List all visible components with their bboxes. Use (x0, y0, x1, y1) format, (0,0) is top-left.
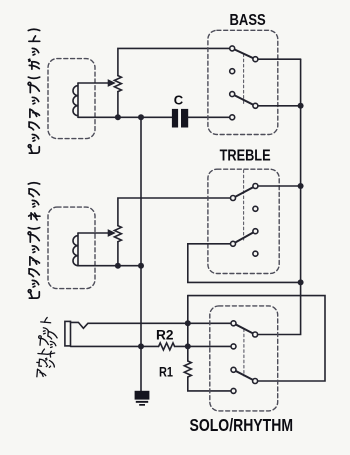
resistor R2 (horizontal zigzag) (159, 343, 175, 350)
switch S1 lever pole2 (232, 94, 255, 106)
node ground bus top junction (138, 114, 144, 120)
wire R1 bottom to S3 terminal 4 (188, 377, 232, 391)
switch S3 gang link (dashed) (243, 329, 245, 376)
wire S1 throw1 to right bus (255, 58, 300, 60)
label output jack line 2 (rotated Japanese text) (45, 332, 58, 368)
switch S1 throw contact B (253, 103, 258, 108)
label output jack line 1 (rotated Japanese text) (35, 317, 51, 378)
switch S2 lever pole1 (233, 186, 255, 198)
output jack body (sleeve) (65, 321, 71, 346)
label pickup P1 (vertical Japanese text) (28, 29, 40, 153)
switch S3 contact pin 3 (231, 367, 236, 372)
switch S3 SOLO/RHYTHM dashed enclosure (210, 306, 278, 411)
switch S2 throw contact 1a (253, 184, 258, 189)
switch S2 throw contact 1b (253, 206, 258, 211)
svg-text:C: C (174, 93, 184, 108)
svg-text:R2: R2 (156, 328, 174, 343)
wire hot loop to S3 throw2 (upper path) (188, 296, 325, 381)
wire ground rail top: coil bottom to capacitor (78, 116, 172, 118)
wire right bus (BASS/TREBLE/SOLO common) (256, 59, 301, 334)
wire jack tip contact to S3 pole1 (with spring notch) (71, 322, 232, 328)
node R1/R2/S3 junction (185, 343, 191, 349)
switch S2 pole contact 2 (231, 241, 236, 246)
switch S1 contact pin 1 (230, 46, 235, 51)
pickup P2 (neck) dashed enclosure (48, 207, 95, 289)
wire coil L1 top to wiper (78, 82, 109, 84)
switch S3 contact pin 1 (231, 321, 236, 326)
switch S2 throw contact 2a (253, 229, 258, 234)
switch S3 lever pole1 (234, 323, 256, 334)
potentiometer VR1 (bridge volume) (114, 76, 121, 92)
node hot junction on tip line (185, 320, 191, 326)
node right bus / S1 throw2 (298, 103, 304, 109)
switch S1 gang link (dashed) (243, 54, 245, 104)
svg-text:SOLO/RHYTHM: SOLO/RHYTHM (190, 415, 294, 435)
wire coil L2 bottom to ground bus (78, 265, 141, 267)
switch S2 gang link (dashed) (243, 170, 245, 240)
switch S1 lever pole1 (232, 48, 255, 59)
switch S3 throw contact B (253, 379, 258, 384)
switch S1 throw contact A (253, 57, 258, 62)
wire VR1 bottom lead (117, 92, 119, 118)
svg-text:R1: R1 (159, 364, 173, 379)
switch S2 TREBLE dashed enclosure (208, 169, 279, 273)
switch S3 throw contact A (253, 332, 258, 337)
wire S2 throw1 to right bus (255, 185, 300, 187)
resistor R1 (vertical zigzag) (184, 361, 191, 377)
wire VR2 bottom lead (117, 242, 119, 266)
switch S3 contact pin 2 (231, 344, 236, 349)
wiper arrow VR1 (108, 80, 114, 86)
wire S1 throw2 to right bus (255, 105, 300, 107)
switch S1 contact pin 4 (230, 115, 235, 120)
switch S3 lever pole2 (234, 370, 256, 381)
inductor L1 (bridge pickup coil) (73, 83, 78, 117)
switch S1 contact pin 3 (230, 92, 235, 97)
wire S2 pole2 to right bus (down and right) (188, 244, 301, 283)
wire R2 to S3 terminal 2 (175, 345, 232, 347)
node right bus / S2 throw1 (298, 183, 304, 189)
wire VR2 top to TREBLE switch pole 1 (118, 198, 232, 226)
svg-text:BASS: BASS (230, 12, 266, 29)
wire capacitor C to BASS switch terminal 4 (188, 116, 231, 118)
switch S2 lever pole2 (233, 231, 255, 244)
wire VR1 top to BASS switch pole 1 (118, 48, 231, 75)
wire hot vertical / R1 chain top (187, 296, 189, 361)
node coil L2 ground junction (138, 263, 144, 269)
switch S2 throw contact 2b (253, 251, 258, 256)
inductor L2 (neck pickup coil) (73, 233, 78, 266)
node VR2 bottom junction (115, 263, 121, 269)
switch S3 contact pin 4 (231, 388, 236, 393)
node ground bus / jack sleeve (138, 343, 144, 349)
pickup P1 (bridge) dashed enclosure (48, 59, 95, 139)
switch S1 contact pin 2 (230, 69, 235, 74)
node VR1 bottom junction (115, 114, 121, 120)
capacitor C (two plates) (172, 109, 188, 128)
label pickup P2 (vertical Japanese text) (28, 183, 40, 298)
wire coil L2 top to wiper (78, 232, 109, 234)
ground symbol (135, 391, 150, 406)
wire ground bus (vertical) (140, 117, 142, 391)
switch S2 pole contact 1 (231, 196, 236, 201)
node right bus lower junction (298, 279, 304, 285)
wire jack sleeve to R2 (71, 345, 159, 347)
wiper arrow VR2 (108, 230, 114, 236)
potentiometer VR2 (neck volume) (114, 226, 121, 242)
switch S1 BASS dashed enclosure (208, 30, 278, 134)
svg-text:TREBLE: TREBLE (220, 147, 271, 164)
